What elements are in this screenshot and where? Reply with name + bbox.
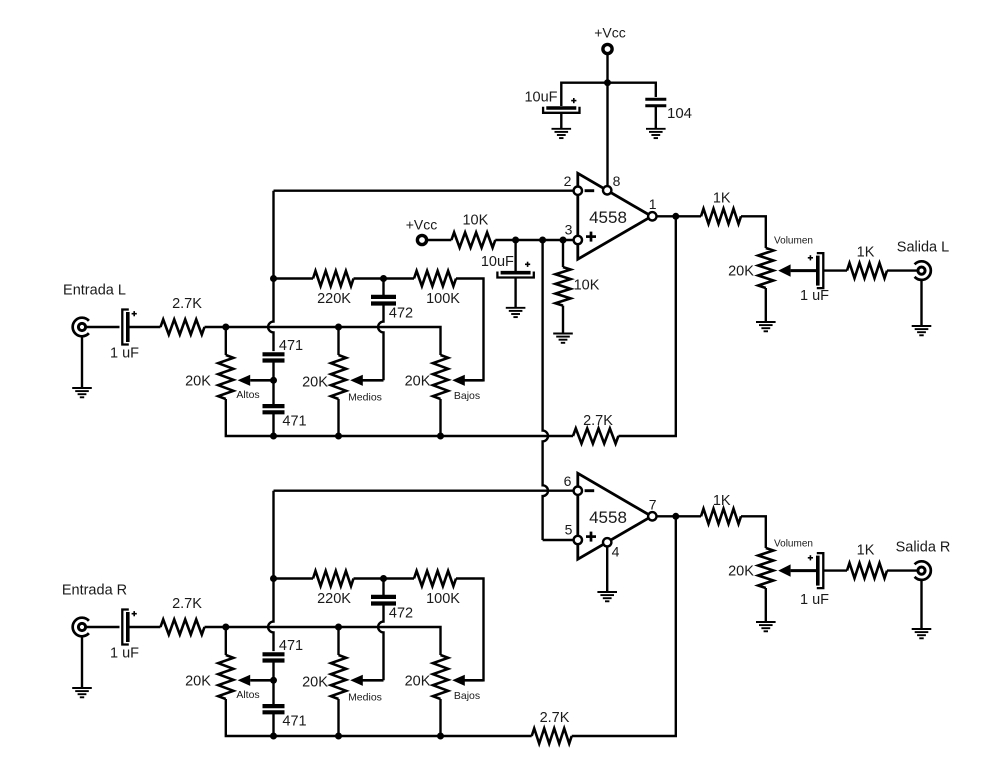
wire 1uF to 1K output L — [823, 269, 847, 271]
junction left bus at Altos wiper R — [270, 677, 277, 684]
wire left bus between 471 caps R — [272, 661, 274, 707]
wire 1uF to 2.7K input R — [128, 626, 160, 628]
wiper arrow Medios L — [363, 379, 384, 382]
wire left bus upper L (hops signal rail) — [268, 191, 273, 351]
resistor 10K bias upper — [451, 232, 495, 247]
wiper arrow Volumen R — [791, 569, 817, 572]
op-amp inverting pin 2 L — [574, 187, 582, 195]
svg-text:7: 7 — [649, 497, 657, 513]
wire op-amp inverting input to left bus L — [274, 189, 574, 191]
resistor 220K L — [313, 271, 354, 286]
svg-text:2.7K: 2.7K — [540, 710, 570, 726]
svg-text:10uF: 10uF — [481, 254, 514, 270]
wiper arrow Bajos R — [465, 679, 484, 682]
wire 472 to Medios wiper R (hops signal rail) — [378, 604, 383, 681]
junction bias at 10uF — [512, 237, 519, 244]
wiper arrow Volumen L — [791, 269, 817, 272]
resistor 100K L — [414, 271, 456, 286]
svg-text:20K: 20K — [405, 674, 431, 690]
resistor 100K R — [414, 571, 456, 586]
wire Volumen pot to ground L — [765, 288, 767, 322]
resistor 1K output L — [701, 209, 741, 224]
wire Medios top lead L — [337, 327, 339, 355]
junction output node R — [672, 513, 679, 520]
capacitor 1uF output L — [817, 253, 824, 288]
ground Entrada R — [72, 687, 92, 689]
junction 220K/100K/472 R — [380, 575, 387, 582]
output jack Salida L — [918, 267, 925, 274]
wire 220K to 472 node L — [354, 277, 415, 279]
wire +Vcc rail down to op-amp pin 8 — [606, 83, 608, 187]
svg-text:20K: 20K — [185, 374, 211, 390]
svg-text:Salida R: Salida R — [896, 540, 951, 556]
wire bottom rail R — [226, 699, 532, 736]
op-amp non-inverting pin 5 R — [574, 536, 582, 544]
wiper arrow Medios R — [363, 679, 384, 682]
wire 1K to Salida R jack — [887, 569, 918, 571]
op-amp 4558 A — [578, 173, 652, 259]
input jack Entrada R — [78, 623, 85, 630]
resistor 1K to jack R — [847, 563, 887, 578]
op-amp power pin 4 — [603, 538, 611, 546]
wire 100K to Bajos wiper R — [456, 579, 484, 681]
svg-text:1 uF: 1 uF — [800, 288, 829, 304]
resistor 220K R — [313, 571, 354, 586]
wiper arrow Altos R — [250, 679, 273, 682]
potentiometer 20K Volumen R — [758, 548, 773, 588]
wire Entrada R jack to capacitor — [86, 626, 120, 628]
ground op-amp pin 4 — [597, 591, 617, 593]
svg-text:2.7K: 2.7K — [583, 413, 613, 429]
svg-text:20K: 20K — [185, 674, 211, 690]
potentiometer 20K Medios L — [331, 355, 346, 399]
wire output pin to 1K R — [657, 515, 702, 517]
wire 1uF to 2.7K input L — [128, 326, 160, 328]
potentiometer 20K Altos L — [218, 355, 233, 399]
svg-text:1 uF: 1 uF — [110, 645, 139, 661]
svg-text:Medios: Medios — [348, 392, 382, 404]
junction left bus at 220K R — [270, 575, 277, 582]
op-amp power pin 8 — [603, 186, 611, 194]
svg-text:+Vcc: +Vcc — [406, 217, 438, 233]
svg-text:1 uF: 1 uF — [800, 592, 829, 608]
potentiometer 20K Bajos R — [433, 655, 448, 699]
svg-text:8: 8 — [613, 173, 621, 189]
wiper arrow Bajos L — [465, 379, 484, 382]
resistor 1K to jack L — [847, 263, 887, 278]
svg-text:471: 471 — [282, 414, 306, 430]
ground Volumen L — [756, 321, 776, 323]
resistor 1K output R — [701, 509, 741, 524]
wire 1K to Volumen pot L — [741, 216, 766, 248]
op-amp non-inverting pin 3 L — [574, 236, 582, 244]
capacitor 472 L — [371, 295, 396, 299]
capacitor 471 lower R — [263, 704, 285, 708]
wire bias to op-amp pin 5 (hops rails) — [543, 240, 548, 540]
svg-text:Entrada R: Entrada R — [62, 582, 127, 598]
wire feedback to output L — [618, 216, 675, 436]
wire 10K to op-amp pin 3 — [495, 239, 573, 241]
op-amp output pin 7 R — [648, 512, 656, 520]
ground Entrada L — [72, 387, 92, 389]
svg-text:471: 471 — [279, 338, 303, 354]
wire 472 to Medios wiper L (hops signal rail) — [378, 304, 383, 381]
junction signal rail at Medios L — [335, 324, 342, 331]
power terminal +Vcc (top) — [603, 44, 612, 53]
wire Altos top lead L — [225, 327, 227, 355]
capacitor 471 upper R — [263, 652, 285, 656]
potentiometer 20K Medios R — [331, 655, 346, 699]
resistor 10K bias lower — [555, 267, 570, 306]
capacitor 1uF output R — [817, 553, 824, 588]
wire signal rail R — [205, 627, 441, 655]
svg-text:100K: 100K — [426, 291, 460, 307]
svg-text:4: 4 — [612, 544, 620, 560]
wire 10uF supply to ground — [560, 113, 562, 129]
junction bias at 10K lower — [560, 237, 567, 244]
power terminal +Vcc (bias) — [417, 235, 426, 244]
svg-text:5: 5 — [565, 522, 573, 538]
resistor 2.7K feedback R — [532, 728, 572, 743]
wire Entrada L jack to capacitor — [86, 326, 120, 328]
wire pin 4 to ground — [606, 547, 608, 592]
junction bottom rail at Medios L — [335, 433, 342, 440]
ground 10K bias — [553, 333, 573, 335]
svg-text:2: 2 — [564, 173, 572, 189]
svg-text:Altos: Altos — [236, 389, 259, 401]
ground 10uF bias — [506, 307, 526, 309]
wire feedback to output R — [572, 516, 676, 736]
potentiometer 20K Bajos L — [433, 355, 448, 399]
wire 1uF to 1K output R — [823, 569, 847, 571]
wire 472 top lead R — [382, 579, 384, 597]
svg-text:20K: 20K — [405, 374, 431, 390]
svg-text:104: 104 — [667, 105, 692, 122]
svg-text:1K: 1K — [857, 542, 875, 558]
wire op-amp inverting input to left bus R — [274, 490, 574, 492]
wire output pin to 1K L — [657, 215, 702, 217]
wire signal rail L — [205, 327, 441, 355]
potentiometer 20K Volumen L — [758, 248, 773, 288]
wire bottom rail L — [226, 399, 573, 436]
op-amp inverting pin 6 R — [574, 487, 582, 495]
wire 1K to Salida L jack — [887, 269, 918, 271]
input jack Entrada L — [78, 323, 85, 330]
svg-text:472: 472 — [389, 306, 413, 322]
junction bottom rail at Bajos L — [437, 433, 444, 440]
svg-text:6: 6 — [564, 473, 572, 489]
junction signal rail at Medios R — [335, 624, 342, 631]
svg-text:20K: 20K — [302, 675, 328, 691]
svg-text:471: 471 — [279, 638, 303, 654]
junction bottom rail at bus R — [270, 733, 277, 740]
wire 220K left lead L — [274, 277, 314, 279]
svg-text:220K: 220K — [317, 291, 351, 307]
ground 104 — [646, 128, 666, 130]
wire 220K left lead R — [274, 577, 314, 579]
wire 1K to Volumen pot R — [741, 516, 766, 548]
resistor 2.7K input R — [161, 619, 205, 634]
wire Medios top lead R — [337, 627, 339, 655]
op-amp output pin 1 L — [648, 212, 656, 220]
capacitor 471 lower L — [263, 404, 285, 408]
svg-text:472: 472 — [389, 606, 413, 622]
wire Entrada L jack to ground — [81, 335, 83, 388]
svg-text:1K: 1K — [713, 493, 731, 509]
svg-text:2.7K: 2.7K — [172, 296, 202, 312]
potentiometer 20K Altos R — [218, 655, 233, 699]
wire +Vcc bias to 10K — [427, 239, 452, 241]
svg-text:220K: 220K — [317, 591, 351, 607]
junction bottom rail at Bajos R — [437, 733, 444, 740]
wire bias to 10K lower — [562, 240, 564, 267]
junction signal rail at Altos L — [222, 324, 229, 331]
capacitor 1uF input L — [122, 310, 129, 345]
svg-text:Volumen: Volumen — [774, 539, 813, 550]
resistor 2.7K input L — [161, 319, 205, 334]
capacitor 472 R — [371, 595, 396, 599]
wire Altos top lead R — [225, 627, 227, 655]
ground Salida R — [912, 628, 932, 630]
svg-text:3: 3 — [565, 222, 573, 238]
wire 10uF bias to ground — [514, 278, 516, 308]
wiper arrow Altos L — [250, 379, 273, 382]
capacitor 10uF supply bypass — [546, 106, 576, 110]
wire 104 to ground — [655, 106, 657, 129]
capacitor 10uF bias — [501, 271, 531, 275]
wire supply rail — [561, 83, 656, 106]
svg-text:4558: 4558 — [589, 508, 627, 527]
svg-text:1 uF: 1 uF — [110, 345, 139, 361]
output jack Salida R — [918, 567, 925, 574]
wire Bajos bottom lead R — [439, 699, 441, 736]
wire left bus lower L — [272, 412, 274, 436]
wire Volumen pot to ground R — [765, 588, 767, 622]
svg-text:Bajos: Bajos — [454, 390, 480, 402]
svg-text:1K: 1K — [713, 191, 731, 207]
svg-text:Altos: Altos — [236, 689, 259, 701]
svg-text:100K: 100K — [426, 591, 460, 607]
junction signal rail at Altos R — [222, 624, 229, 631]
junction bias at pin5 branch — [539, 237, 546, 244]
svg-text:1K: 1K — [857, 245, 875, 261]
junction left bus at 220K L — [270, 275, 277, 282]
svg-text:4558: 4558 — [589, 208, 627, 227]
ground Volumen R — [756, 621, 776, 623]
svg-text:Medios: Medios — [348, 692, 382, 704]
wire 472 top lead L — [382, 279, 384, 297]
wire 10K lower to ground — [562, 306, 564, 334]
capacitor 104 supply bypass — [645, 98, 666, 101]
capacitor 1uF input R — [122, 610, 129, 645]
wire 220K to 472 node R — [354, 577, 415, 579]
svg-text:1: 1 — [649, 196, 657, 212]
resistor 2.7K feedback L — [573, 428, 618, 443]
wire left bus between 471 caps L — [272, 361, 274, 407]
svg-text:10K: 10K — [462, 212, 488, 228]
svg-text:471: 471 — [282, 714, 306, 730]
svg-text:20K: 20K — [728, 264, 754, 280]
svg-text:Volumen: Volumen — [774, 235, 813, 246]
wire Medios bottom lead R — [337, 699, 339, 736]
wire bias to 10uF cap — [514, 240, 516, 273]
capacitor 471 upper L — [263, 352, 285, 356]
junction supply rail at Vcc line — [604, 79, 611, 86]
wire +Vcc terminal to supply rail — [606, 54, 608, 83]
svg-text:20K: 20K — [728, 564, 754, 580]
junction output node L — [672, 213, 679, 220]
junction bottom rail at bus L — [270, 433, 277, 440]
wire left bus upper R (hops signal rail) — [268, 491, 273, 651]
wire Salida L jack to ground — [920, 280, 922, 326]
svg-text:10K: 10K — [574, 278, 600, 294]
op-amp 4558 B — [578, 473, 652, 559]
wire Entrada R jack to ground — [81, 635, 83, 688]
wire left bus lower R — [272, 712, 274, 736]
svg-text:Salida L: Salida L — [897, 240, 949, 256]
svg-text:20K: 20K — [302, 375, 328, 391]
wire Salida R jack to ground — [920, 580, 922, 629]
junction left bus at Altos wiper L — [270, 377, 277, 384]
ground 10uF supply — [552, 128, 572, 130]
junction bottom rail at Medios R — [335, 733, 342, 740]
svg-text:Bajos: Bajos — [454, 690, 480, 702]
wire Medios bottom lead L — [337, 399, 339, 436]
svg-text:10uF: 10uF — [524, 90, 557, 106]
wire 100K to Bajos wiper L — [456, 279, 484, 381]
junction 220K/100K/472 L — [380, 275, 387, 282]
svg-text:Entrada L: Entrada L — [63, 282, 126, 298]
wire Bajos bottom lead L — [439, 399, 441, 436]
ground Salida L — [912, 325, 932, 327]
svg-text:+Vcc: +Vcc — [594, 25, 626, 41]
svg-text:2.7K: 2.7K — [172, 596, 202, 612]
